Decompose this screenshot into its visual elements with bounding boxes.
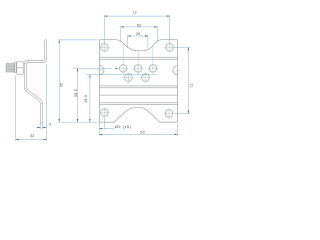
arrows dim 72 top xyxy=(104,15,107,16)
cross hole top-right xyxy=(164,46,174,48)
center hole row2 b xyxy=(142,74,150,82)
middle line xyxy=(99,94,177,96)
arrows dim 72 right xyxy=(188,47,189,50)
cross center row1 b xyxy=(133,67,143,69)
arrowheads xyxy=(16,15,189,140)
nut mid line xyxy=(17,67,24,69)
center hole row1 c xyxy=(149,65,157,73)
cross right notch xyxy=(175,69,181,71)
washer xyxy=(15,63,17,73)
dim 72 right: line xyxy=(187,47,189,113)
svg-text:3: 3 xyxy=(49,123,51,127)
cross hole top-left xyxy=(99,46,109,48)
dia9 leader line xyxy=(99,128,114,130)
dim 48.5 ext top xyxy=(86,74,157,76)
svg-text:32: 32 xyxy=(30,134,35,138)
svg-text:52: 52 xyxy=(137,24,142,28)
dim 90 bottom ext right xyxy=(177,123,179,136)
cross center row2 a xyxy=(123,77,133,79)
dim 90 bottom: line xyxy=(99,133,177,135)
dim 52: line xyxy=(121,26,158,28)
dim 20 ext left xyxy=(127,35,129,49)
dia9 leader ext xyxy=(104,118,106,130)
svg-text:90: 90 xyxy=(60,82,64,87)
cross center row2 b xyxy=(140,77,150,79)
arrows dim 90 left xyxy=(59,40,60,43)
bend line band 2 xyxy=(99,85,177,87)
hole top-right xyxy=(166,44,174,52)
bend line band 1 xyxy=(99,56,177,58)
centerline vertical row1 a xyxy=(122,44,124,74)
center hole row1 a xyxy=(119,65,127,73)
dim 32: line xyxy=(16,138,47,140)
dim 72 top: line xyxy=(104,15,169,17)
dim 72 top ext right xyxy=(169,15,171,43)
cross hole bottom-left xyxy=(99,112,109,114)
svg-text:72: 72 xyxy=(132,11,137,15)
dim 3: right segment xyxy=(42,127,46,129)
arrows dim 3 xyxy=(38,127,41,128)
center hole row2 a xyxy=(125,74,133,82)
dim 48.5: line xyxy=(89,75,91,122)
cross center row1 a xyxy=(118,67,128,69)
dim 20 ext right xyxy=(147,35,149,49)
hole centerline crosses xyxy=(96,42,180,118)
cross left notch xyxy=(96,69,102,71)
arrows dim 90 bottom xyxy=(99,134,102,135)
dim 32 ext right xyxy=(46,64,48,141)
svg-text:58.5: 58.5 xyxy=(74,89,78,97)
svg-text:Ø9 (x5): Ø9 (x5) xyxy=(115,125,132,129)
bolt head xyxy=(6,64,14,72)
arrow dia9 leader xyxy=(99,128,102,129)
hole bottom-left xyxy=(101,109,109,117)
svg-text:90: 90 xyxy=(140,131,145,135)
dim 3: ext lines xyxy=(39,123,41,129)
bolt head facet lines xyxy=(6,66,14,68)
arrows dim 32 xyxy=(16,139,19,140)
left edge notch (half hole) xyxy=(99,66,104,75)
dim 90 left: line xyxy=(58,40,60,122)
dimension texts xyxy=(30,11,194,138)
arrows dim 48.5 xyxy=(89,75,90,78)
dim 72 right ext top xyxy=(174,46,190,48)
dim 58.5 ext top xyxy=(73,67,112,69)
dim 90 left ext bottom xyxy=(58,121,98,123)
bend line band 3 xyxy=(99,102,177,104)
plate outline with top saddle dip and bottom arch xyxy=(99,40,177,123)
cross hole bottom-right xyxy=(164,113,174,115)
center hole row1 b xyxy=(134,65,142,73)
cross center row1 c xyxy=(148,67,158,69)
dim 52 ext right xyxy=(156,26,158,43)
dim 3: left segment xyxy=(36,127,40,129)
dim 32 ext left xyxy=(15,75,17,141)
dim 52 ext left xyxy=(120,26,122,42)
dim 72 right ext bottom xyxy=(174,113,190,115)
hole bottom-right xyxy=(165,110,173,118)
hole top-left xyxy=(101,44,109,52)
right edge notch (half hole) xyxy=(173,66,178,75)
arrows dim 52 xyxy=(121,26,124,27)
dim 20: line xyxy=(128,35,148,37)
dim 58.5: line xyxy=(77,68,79,122)
svg-text:72: 72 xyxy=(190,83,194,88)
centerline vertical row1 c xyxy=(152,46,154,74)
arrows dim 20 xyxy=(128,35,131,36)
arrows dim 58.5 xyxy=(77,68,78,71)
dim 90 left ext top xyxy=(58,39,99,41)
arrow dim 58.5 ext tip xyxy=(115,68,118,69)
nut xyxy=(17,61,24,74)
dim 72 top ext left xyxy=(103,15,105,43)
dim 90 bottom ext left xyxy=(98,119,100,136)
svg-text:48.5: 48.5 xyxy=(84,95,88,103)
svg-text:20: 20 xyxy=(136,32,141,36)
centerline vertical row1 b xyxy=(137,51,139,73)
sheet profile double line xyxy=(26,41,46,122)
